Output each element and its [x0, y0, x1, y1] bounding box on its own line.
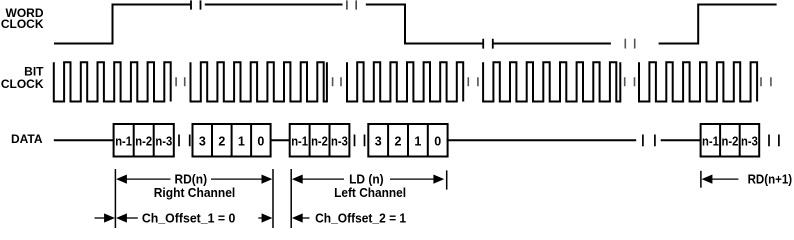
svg-text:2: 2 [218, 134, 225, 148]
svg-text:n-2: n-2 [135, 134, 152, 148]
bit clock waveform segment 4 [483, 62, 620, 101]
data box group 3 outline [290, 124, 350, 157]
ch_offset_2 tail line [302, 217, 310, 219]
data break marker 1 [179, 135, 190, 147]
data break marker 4 [769, 135, 779, 147]
arrow RD(n+1) line [712, 178, 739, 180]
dimension arrow LD(n) left arrowhead [292, 175, 303, 184]
extension bar at end of RD(n) [272, 169, 274, 228]
svg-text:n-2: n-2 [722, 134, 739, 148]
data box group 1 outline [114, 124, 174, 157]
svg-text:1: 1 [414, 134, 421, 148]
dimension arrow LD(n) right line [390, 178, 435, 180]
svg-text:CLOCK: CLOCK [1, 77, 44, 91]
word clock waveform segment 2 (high) [205, 4, 343, 6]
svg-text:0: 0 [434, 134, 441, 148]
ch_offset_1 outside-left arrowhead (points right into bar) [104, 213, 115, 222]
bit clock waveform segment 2 [191, 62, 327, 101]
bit clock break marker 1 [176, 77, 185, 86]
bit clock break marker 4 [625, 77, 635, 86]
extension bar at RD(n+1) [700, 171, 702, 188]
data box group 5 divider 1 [719, 124, 721, 157]
word clock break marker 1 [191, 0, 201, 9]
extension bar at start of LD(n) [290, 169, 292, 228]
data break marker 2 [355, 135, 365, 147]
bit clock waveform segment 3 [347, 62, 463, 101]
svg-text:DATA: DATA [11, 132, 43, 146]
bit clock waveform segment 1 [54, 62, 171, 101]
data line into first box group [54, 139, 115, 141]
data box group 3 divider 2 [329, 124, 331, 157]
bit clock break marker 2 [333, 77, 341, 86]
svg-text:CLOCK: CLOCK [1, 17, 44, 31]
data box group 4 divider 1 [387, 124, 389, 157]
bit clock waveform segment 5 [639, 62, 757, 101]
data box group 1 divider 2 [153, 124, 155, 157]
ch_offset_2 left arrowhead [292, 213, 303, 222]
svg-text:3: 3 [375, 134, 382, 148]
ch_offset_1 left arrowhead [116, 213, 127, 222]
svg-text:3: 3 [199, 134, 206, 148]
data box group 2 divider 1 [211, 124, 213, 157]
dimension arrow RD(n) right line [211, 178, 263, 180]
word clock waveform segment 3 (high, falling edge, low) [366, 5, 483, 44]
svg-text:1: 1 [238, 134, 245, 148]
data box group 3 divider 1 [309, 124, 311, 157]
data box group 5 outline [701, 124, 760, 157]
data long idle line after group 4 [447, 139, 637, 141]
data box group 2 divider 3 [250, 124, 252, 157]
ch_offset_1 right tail line [258, 217, 263, 219]
data connector line between group 2 and group 3 [271, 139, 291, 141]
data box group 2 divider 2 [231, 124, 233, 157]
word clock waveform segment 1 (low, rising edge, high) [54, 5, 191, 44]
svg-text:0: 0 [257, 134, 264, 148]
svg-text:n-3: n-3 [155, 134, 172, 148]
svg-text:n-3: n-3 [331, 134, 348, 148]
ch_offset_1 outside-left line [95, 217, 106, 219]
svg-text:n-1: n-1 [115, 134, 132, 148]
data box group 4 divider 2 [407, 124, 409, 157]
ch_offset_1 right arrowhead (points right into bar) [262, 213, 273, 222]
data box group 4 divider 3 [427, 124, 429, 157]
svg-text:Ch_Offset_1 = 0: Ch_Offset_1 = 0 [142, 211, 236, 225]
svg-text:RD(n+1): RD(n+1) [748, 172, 793, 186]
svg-text:RD(n): RD(n) [175, 172, 208, 186]
svg-text:2: 2 [395, 134, 402, 148]
arrow RD(n+1) arrowhead [702, 175, 713, 184]
svg-text:n-1: n-1 [702, 134, 719, 148]
dimension arrow RD(n) left arrowhead [116, 175, 127, 184]
data line into last box group [661, 139, 702, 141]
data box group 4 outline [368, 124, 447, 157]
extension bar at end of LD(n) [446, 170, 448, 189]
svg-text:n-3: n-3 [741, 134, 758, 148]
svg-text:Ch_Offset_2 = 1: Ch_Offset_2 = 1 [315, 211, 406, 225]
data break marker 3 [643, 135, 655, 147]
word clock break marker 3 [483, 39, 493, 49]
svg-text:LD (n): LD (n) [349, 172, 384, 186]
bit clock break marker 3 [468, 77, 478, 86]
word clock waveform segment 5 (low, rising edge, high) [659, 5, 777, 44]
data box group 5 divider 2 [739, 124, 741, 157]
data box group 2 outline [193, 124, 271, 157]
svg-text:Right Channel: Right Channel [154, 186, 236, 200]
data box group 1 divider 1 [133, 124, 135, 157]
word clock break marker 4 [625, 39, 634, 49]
bit clock break marker 5 [761, 77, 771, 86]
word clock waveform segment 4 (low) [493, 43, 611, 45]
svg-text:Left Channel: Left Channel [334, 186, 406, 200]
dimension arrow RD(n) left line [126, 178, 171, 180]
dimension arrow LD(n) right arrowhead [433, 175, 444, 184]
ch_offset_1 left tail line [126, 217, 138, 219]
dimension arrow LD(n) left line [302, 178, 344, 180]
extension bar at start of RD(n) [114, 169, 116, 228]
svg-text:n-1: n-1 [291, 134, 308, 148]
word clock break marker 2 [347, 0, 356, 9]
svg-text:n-2: n-2 [311, 134, 328, 148]
dimension arrow RD(n) right arrowhead [262, 175, 273, 184]
